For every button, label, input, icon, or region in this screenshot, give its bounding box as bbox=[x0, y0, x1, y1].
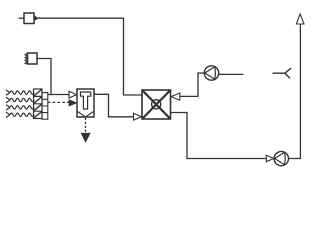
wire from manifold to filter inlet (with B2 junction) bbox=[48, 94, 69, 96]
fan P1 (circle with inscribed vane triangle) bbox=[204, 66, 218, 80]
hose connection H4 (crow-foot + flexible hose, row 4) bbox=[6, 112, 34, 117]
dashed suction line from manifold row 2 bbox=[48, 101, 69, 103]
wire from P1 outlet (dead-end stub to the right) bbox=[219, 73, 244, 75]
hose connection H2 (crow-foot + flexible hose, row 2) bbox=[6, 97, 34, 102]
exhaust arrow to atmosphere (hollow, pointing up) bbox=[296, 14, 304, 24]
wire from fan P1 to V1 right-top arrow bbox=[180, 73, 205, 96]
arrow into V1 left port (hollow) bbox=[134, 113, 142, 120]
component box B1 (top-left inline device) bbox=[19, 13, 39, 24]
wire from V1 bottom-right port to fan P2 (right, down, right) bbox=[171, 113, 267, 159]
wire from P2 outlet up to exhaust bbox=[289, 24, 301, 158]
hose connection H3 (crow-foot + flexible hose, row 3) bbox=[6, 105, 34, 110]
arrow into V1 right-top port (hollow, pointing left) bbox=[171, 93, 180, 100]
wire from B1 to rotary valve V1 (right, down, right) bbox=[38, 18, 142, 95]
hose connection H1 (crow-foot + flexible hose, row 1) bbox=[6, 90, 34, 95]
arrow into P2 inlet (hollow) bbox=[266, 155, 273, 162]
filter / cyclone separator F1 bbox=[77, 89, 94, 117]
wire from B2 down to filter inlet line bbox=[37, 59, 51, 95]
arrow into filter F1 lower inlet (solid) bbox=[69, 100, 77, 106]
component box B2 (small device with serrated left edge) bbox=[25, 53, 37, 64]
fan P2 (circle with inscribed vane triangle) bbox=[274, 151, 288, 165]
dashed dust discharge stem under F1 bbox=[85, 118, 87, 133]
solid discharge arrow under F1 bbox=[81, 133, 90, 142]
manifold inlet cells (hatched column) bbox=[34, 89, 43, 119]
arrow into filter F1 top inlet (hollow) bbox=[69, 91, 77, 98]
rotary valve V1 (square with X and center circle) bbox=[142, 90, 171, 119]
manifold outlet cells (plain column) bbox=[42, 93, 48, 120]
wire from F1 outlet to rotary valve V1 (right, down, right) bbox=[94, 94, 133, 117]
branch symbol (crow-foot) near exhaust line bbox=[273, 68, 291, 78]
